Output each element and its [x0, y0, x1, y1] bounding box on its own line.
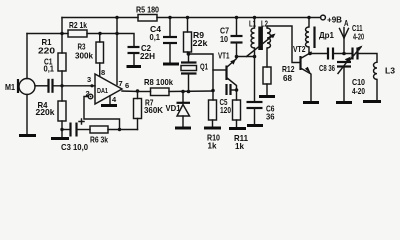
- svg-text:220k: 220k: [36, 108, 55, 117]
- svg-text:R3: R3: [78, 43, 86, 52]
- svg-text:4-20: 4-20: [352, 87, 365, 96]
- svg-text:7: 7: [119, 79, 123, 88]
- svg-text:0,1: 0,1: [150, 33, 161, 42]
- svg-text:Q1: Q1: [200, 63, 208, 72]
- svg-text:C3 10,0: C3 10,0: [61, 143, 88, 152]
- svg-text:4: 4: [112, 95, 117, 104]
- svg-text:M1: M1: [5, 83, 15, 92]
- svg-text:120: 120: [220, 106, 231, 115]
- svg-text:68: 68: [283, 74, 292, 83]
- svg-text:220: 220: [38, 47, 56, 56]
- svg-text:+9B: +9B: [327, 16, 342, 25]
- svg-text:R6 3k: R6 3k: [90, 136, 108, 145]
- svg-text:2: 2: [86, 89, 90, 98]
- svg-text:L3: L3: [385, 67, 395, 76]
- svg-text:R12: R12: [282, 65, 295, 74]
- svg-text:3: 3: [87, 75, 91, 84]
- svg-text:L2: L2: [261, 20, 268, 29]
- svg-text:1k: 1k: [208, 142, 217, 151]
- svg-text:22k: 22k: [193, 39, 208, 48]
- svg-text:10: 10: [220, 35, 228, 44]
- svg-text:0,1: 0,1: [44, 65, 55, 74]
- svg-text:Др1: Др1: [319, 31, 334, 40]
- svg-text:22H: 22H: [140, 52, 155, 61]
- svg-text:R5 180: R5 180: [136, 6, 159, 15]
- svg-text:R2 1k: R2 1k: [69, 21, 87, 30]
- svg-text:C10: C10: [352, 78, 365, 87]
- svg-text:A: A: [344, 19, 349, 28]
- svg-text:360K: 360K: [144, 106, 163, 115]
- svg-text:36: 36: [266, 113, 275, 122]
- svg-text:L1: L1: [249, 20, 256, 29]
- svg-text:1k: 1k: [235, 142, 244, 151]
- svg-text:C8 36: C8 36: [319, 64, 335, 73]
- svg-text:VD1: VD1: [166, 104, 181, 113]
- svg-text:8: 8: [101, 68, 105, 77]
- svg-text:6: 6: [125, 81, 129, 90]
- svg-text:VT2: VT2: [293, 45, 306, 54]
- svg-text:VT1: VT1: [218, 52, 230, 61]
- svg-text:DA1: DA1: [97, 86, 108, 95]
- svg-text:R8 100k: R8 100k: [144, 78, 173, 87]
- svg-text:300k: 300k: [75, 52, 93, 61]
- svg-text:4-20: 4-20: [353, 33, 364, 42]
